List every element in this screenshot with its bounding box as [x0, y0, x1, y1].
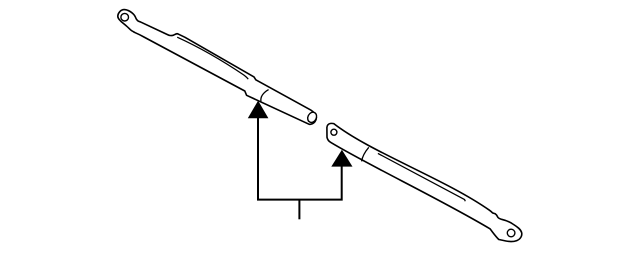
wiper link rod 1 (upper left part) outline [118, 10, 317, 125]
arrowhead pointing to rod 1 [248, 101, 269, 119]
rod 2 lower eyelet hole [507, 229, 515, 237]
wiper link rod 2 (lower right part) outline [327, 123, 522, 241]
callout bracket lines [258, 118, 342, 200]
rod 2 upper eyelet hole [331, 129, 337, 135]
rod 1 tube end opening ellipse [306, 111, 318, 124]
rod 2 head/shaft transition arc [362, 147, 369, 161]
rod 1 eyelet hole [121, 13, 129, 21]
rod 2 inner highlight line [378, 153, 465, 201]
rod 1 tube rim arc [261, 90, 269, 102]
arrowhead pointing to rod 2 [331, 150, 352, 167]
rod 1 inner highlight line [177, 37, 248, 79]
callout center tick [298, 200, 300, 220]
